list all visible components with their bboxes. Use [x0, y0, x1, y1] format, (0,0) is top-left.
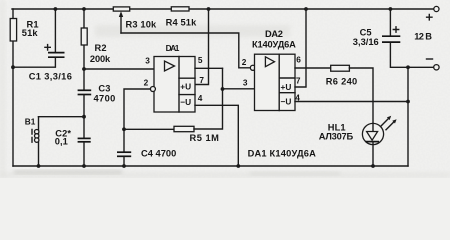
svg-text:5: 5	[198, 55, 203, 65]
label pin 2 of DA2	[242, 57, 247, 67]
inverting input bubble DA2	[250, 65, 255, 70]
wire: C1 bottom to left rail	[13, 58, 55, 67]
svg-text:C3: C3	[98, 83, 110, 93]
wire: C4 top lead	[123, 129, 125, 151]
wire: C2 bottom lead	[83, 143, 85, 166]
node: C1/left rail junction	[11, 65, 15, 69]
node: R2/C3 tap	[82, 67, 86, 71]
node: DA2 +U top rail junction	[304, 7, 308, 11]
svg-text:200k: 200k	[90, 54, 111, 64]
svg-text:C4 4700: C4 4700	[141, 148, 176, 158]
node: pin2/C4/R5 junction	[122, 127, 126, 131]
label C5 3,3/16	[353, 28, 379, 47]
wire: R5 right lead up to pin5 node	[194, 68, 223, 129]
svg-text:4700: 4700	[94, 94, 116, 104]
wire: B1 top wire	[39, 116, 85, 118]
wire: LED cathode to ground	[372, 142, 374, 166]
svg-text:12 В: 12 В	[414, 31, 432, 41]
wire: DA1 pin 4 to ground	[195, 105, 238, 166]
capacitor C3	[78, 90, 92, 94]
wire: DA1 pin 5 output	[195, 67, 223, 69]
node: LED ground junction	[371, 164, 375, 168]
svg-text:4: 4	[198, 93, 203, 103]
svg-text:B1: B1	[25, 117, 36, 127]
LED HL1	[362, 116, 396, 145]
node: C1 top junction	[54, 7, 58, 11]
svg-text:51k: 51k	[22, 28, 39, 38]
label DA1 К140УД6А (bottom note)	[248, 149, 317, 159]
svg-text:2: 2	[242, 57, 247, 67]
svg-text:3,3/16: 3,3/16	[353, 37, 379, 47]
label 12 В	[414, 31, 432, 41]
op-amp DA1	[154, 57, 195, 113]
label pin 6 of DA2	[296, 55, 301, 65]
label pin 4 of DA1	[198, 93, 203, 103]
svg-text:DA2: DA2	[265, 29, 283, 39]
resistor R4	[171, 7, 189, 11]
wire: +U drop to DA1 pin 7	[195, 9, 209, 85]
label C2* 0,1	[55, 128, 72, 146]
wire: DA2 pin 6 output to R6	[295, 67, 331, 69]
terminal: minus	[427, 59, 440, 70]
svg-text:6: 6	[296, 55, 301, 65]
wire: DA2 pin 7 to top rail	[295, 9, 306, 87]
label B1	[25, 117, 36, 127]
resistor R1	[10, 19, 16, 42]
wire: R3 wiper feedback to DA2 pin 2	[121, 33, 250, 68]
resistor R3 (with trimmer arrow)	[113, 7, 129, 33]
label DA1	[166, 43, 180, 53]
svg-text:7: 7	[296, 76, 301, 86]
label C1 3,3/16	[29, 72, 72, 82]
label C3 4700	[94, 83, 116, 103]
wire: bottom (ground) rail	[13, 165, 408, 167]
terminal: +12V	[427, 6, 439, 20]
resistor R5	[174, 126, 194, 131]
label R4 51k	[166, 18, 198, 28]
svg-text:3: 3	[145, 56, 150, 66]
wire: C2 top lead	[83, 117, 85, 138]
label pin 7 of DA1	[199, 75, 204, 85]
wire: C3 bottom	[83, 95, 85, 116]
wire: left rail (R1 branch)	[12, 9, 14, 166]
microphone B1	[32, 117, 39, 166]
label C4 4700	[141, 148, 176, 158]
svg-text:3: 3	[243, 78, 248, 88]
node: B1 ground junction	[37, 164, 41, 168]
op-amp DA2	[255, 54, 296, 110]
svg-text:R6 240: R6 240	[326, 77, 358, 87]
label pin 4 of DA2	[295, 93, 300, 103]
svg-text:−U: −U	[281, 97, 292, 107]
resistor R6	[331, 65, 350, 71]
capacitor C2	[78, 138, 91, 141]
wire: C1 branch from top rail	[54, 9, 56, 52]
label R2 200k	[90, 43, 111, 64]
label R1 51k	[22, 19, 39, 38]
capacitor C5 (electrolytic)	[382, 27, 400, 42]
svg-text:4: 4	[295, 93, 300, 103]
label pin 7 of DA2	[296, 76, 301, 86]
node: C5 top rail junction	[389, 7, 393, 11]
svg-text:2: 2	[144, 78, 149, 88]
resistor R2	[81, 28, 87, 45]
node: R2 top junction	[82, 7, 86, 11]
wire: DA2 pin 4 to minus line	[295, 101, 408, 103]
node: C3/C2/B1 junction	[82, 115, 86, 119]
svg-text:DA1: DA1	[166, 43, 180, 53]
label R6 240	[326, 77, 358, 87]
label pin 3 of DA2	[243, 78, 248, 88]
svg-text:R3 10k: R3 10k	[126, 19, 158, 29]
wire: node to DA2 pin 3	[223, 88, 255, 90]
wire: tap to DA1 pin 3	[84, 68, 154, 70]
node: pin5/R5/DA2-pin3 junction	[221, 87, 225, 91]
svg-text:C1 3,3/16: C1 3,3/16	[29, 72, 72, 82]
node: DA1 pin4 ground junction	[236, 164, 240, 168]
svg-text:DA1 К140УД6А: DA1 К140УД6А	[248, 149, 317, 159]
node: C2 ground junction	[82, 164, 86, 168]
wire: C5 top lead	[389, 9, 391, 35]
svg-text:7: 7	[199, 75, 204, 85]
wire: +12V top rail	[12, 8, 434, 10]
svg-text:К140УД6А: К140УД6А	[252, 40, 296, 50]
capacitor C4	[117, 152, 131, 156]
svg-text:+U: +U	[281, 82, 292, 92]
wire: right vertical drop to ground rail	[407, 67, 409, 166]
svg-text:−U: −U	[180, 97, 191, 107]
label pin 3 of DA1	[145, 56, 150, 66]
svg-text:R5 1M: R5 1M	[190, 133, 220, 143]
svg-text:+U: +U	[180, 82, 191, 92]
node: pin4/minus junction	[406, 100, 410, 104]
node: C4 ground junction	[122, 164, 126, 168]
label HL1 АЛ307Б	[319, 122, 354, 141]
wire: R5 left lead	[124, 128, 174, 130]
wire: C5 bottom to minus rail	[390, 43, 433, 67]
node: top rail to DA1 pin 7	[207, 7, 211, 11]
svg-text:R4 51k: R4 51k	[166, 18, 198, 28]
capacitor C1 (electrolytic)	[45, 45, 65, 58]
wire: DA1 pin 2 to C4/R5 node	[124, 89, 150, 129]
wire: R2/C3 branch from top rail	[83, 9, 85, 89]
label R3 10k	[126, 19, 158, 29]
svg-text:R2: R2	[95, 43, 107, 53]
node: minus rail to right drop	[406, 65, 410, 69]
label DA2 К140УД6А	[252, 29, 296, 50]
wire: R6 to LED	[349, 68, 373, 124]
svg-text:0,1: 0,1	[55, 136, 68, 146]
inverting input bubble DA1	[150, 87, 155, 92]
wire: C4 bottom lead	[123, 157, 125, 166]
label pin 2 of DA1	[144, 78, 149, 88]
label R5 1M	[190, 133, 220, 143]
svg-text:АЛ307Б: АЛ307Б	[319, 131, 354, 141]
label pin 5 of DA1	[198, 55, 203, 65]
